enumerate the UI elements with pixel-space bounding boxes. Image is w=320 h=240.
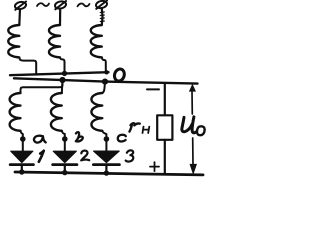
wire: secondary 2 top stub [61, 80, 64, 93]
secondary winding 1 [10, 93, 21, 131]
primary winding 3 [91, 25, 102, 57]
wire: terminal C to primary 3 [101, 8, 104, 25]
wire: secondary 1 bottom to node a and diode 1 [21, 131, 23, 152]
wire: primary 3 bottom jog to neutral bus [102, 57, 106, 71]
node a junction dot [20, 136, 26, 142]
u0 label: u [182, 117, 196, 133]
diode 2 label [81, 151, 89, 161]
primary winding 2 [49, 25, 60, 57]
secondary winding 2 [51, 93, 62, 131]
wire: load branch bottom [164, 140, 166, 174]
wire: primary 2 bottom jog to neutral bus [60, 57, 65, 72]
diode 1 (valve) [10, 151, 33, 172]
primary neutral bus [10, 72, 109, 75]
terminal B (circle with slash) [54, 0, 66, 9]
junction (primary 2 / neutral bus) [62, 71, 67, 76]
diode 3 label [126, 150, 134, 161]
minus polarity label [147, 88, 159, 90]
node b label [76, 132, 83, 141]
node c junction dot [104, 136, 110, 142]
wire: terminal B to primary 2 [59, 9, 61, 25]
secondary neutral wire 0 [14, 78, 198, 83]
wire: secondary 3 top stub [102, 82, 105, 93]
junction (diode 3 / bus) [104, 170, 109, 175]
wire: load branch top [164, 83, 166, 115]
junction (secondary 2 top / wire 0) [59, 77, 65, 83]
resistor Rн (load) [157, 115, 172, 140]
junction (diode 2 / bus) [62, 170, 67, 175]
cathode bus (+) [15, 172, 203, 175]
diode 3 (valve) [93, 151, 119, 173]
ac source mark ~ (between B and C) [78, 4, 90, 7]
resistor label r (of r_н) [130, 123, 140, 131]
node a label [34, 136, 46, 143]
junction (secondary 3 top / wire 0) [102, 79, 108, 85]
wire: primary 1 bottom jog to neutral bus [19, 57, 36, 74]
wire: terminal A to primary 1 [18, 9, 21, 25]
diode 1 label [39, 151, 44, 162]
junction (primary 3 / neutral bus end) [104, 70, 108, 74]
wire: secondary 2 bottom to node b and diode 2 [62, 131, 65, 152]
ac source mark ~ (between A and B) [37, 3, 49, 6]
node b junction dot [62, 136, 68, 142]
plus polarity label [150, 162, 159, 171]
terminal C (circle with slash) [95, 0, 107, 9]
diode 2 (valve) [53, 151, 77, 172]
secondary winding 3 [91, 93, 102, 131]
node c label [118, 135, 126, 142]
wire: secondary 3 bottom to node c and diode 3 [102, 131, 106, 152]
node 0 label [113, 68, 126, 82]
wire: secondary 1 top jog to wire 0 [21, 80, 63, 93]
primary winding 1 [8, 25, 19, 57]
u0 label: 0 subscript [197, 126, 205, 135]
u0 voltage arrow [189, 84, 197, 175]
resistor label н subscript [143, 127, 150, 133]
terminal A (circle with slash) [14, 1, 26, 10]
junction (diode 1 / bus) [19, 169, 24, 174]
